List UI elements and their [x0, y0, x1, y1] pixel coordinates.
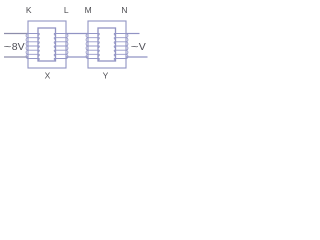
wire: link top lead X to Y [67, 33, 89, 35]
winding curls Y primary [98, 34, 101, 61]
secondary winding of X [54, 34, 68, 59]
wire: output top lead [127, 33, 140, 35]
transformer Y outer winding loop [88, 21, 126, 68]
background [0, 0, 154, 89]
winding curls X secondary [53, 34, 56, 61]
winding curls Y secondary [113, 34, 116, 61]
secondary winding of Y [114, 34, 128, 59]
svg-text:K: K [26, 5, 32, 15]
svg-text:L: L [64, 5, 69, 15]
svg-text:N: N [121, 5, 127, 15]
svg-text:M: M [85, 5, 92, 15]
winding curls X primary [38, 34, 41, 61]
svg-text:~: ~ [4, 40, 12, 52]
wire: source bottom lead [4, 56, 28, 58]
wire: source top lead [4, 33, 28, 35]
primary winding of X [26, 34, 39, 59]
wire: link bottom lead X to Y [67, 56, 89, 58]
transformer X outer winding loop [28, 21, 66, 68]
wire: output bottom lead [127, 56, 148, 58]
svg-text:8V: 8V [12, 41, 25, 53]
svg-text:X: X [45, 71, 51, 81]
primary winding of Y [86, 34, 99, 59]
svg-text:~: ~ [131, 40, 139, 52]
transformer X core [38, 28, 56, 61]
svg-text:Y: Y [103, 71, 109, 81]
transformer Y core [98, 28, 116, 61]
svg-text:V: V [139, 41, 146, 53]
